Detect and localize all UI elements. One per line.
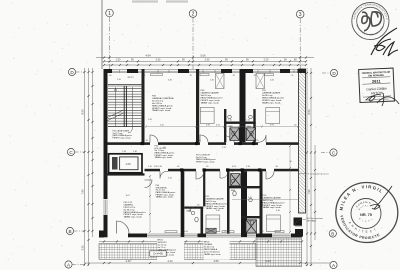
section line top-left [101,0,103,69]
svg-text:BAIE: BAIE [231,189,236,192]
svg-text:.90: .90 [130,58,134,61]
bed P09 [200,108,214,124]
left wall window [104,200,107,216]
signature stamp2 [366,93,399,106]
axis line 3 [299,18,301,69]
room label CASA SCARII [113,130,133,140]
svg-text:.25: .25 [291,75,294,77]
svg-text:TAVAN vops. lavab.: TAVAN vops. lavab. [155,156,173,159]
shower bottom bath right [246,220,257,233]
svg-text:.90: .90 [245,58,249,61]
bottom wall step left [99,231,104,238]
svg-text:1.20: 1.20 [248,197,252,199]
entry door arc [117,221,130,234]
bath core divider 1 [230,186,260,188]
room label P08 [152,96,174,113]
svg-text:8.50: 8.50 [81,109,85,115]
toilets [232,131,235,136]
svg-text:.90: .90 [145,140,148,142]
stamp round verificator [336,183,398,243]
svg-text:.90: .90 [181,58,185,61]
svg-text:8.50: 8.50 [307,109,311,115]
axis marker 1 [106,9,114,17]
signature stamp3 [370,186,392,209]
svg-text:.25: .25 [189,75,192,77]
svg-text:BAIE: BAIE [248,220,253,223]
svg-text:1 covorasele de acces: 1 covorasele de acces [308,172,329,175]
svg-text:C: C [332,150,336,155]
terrace hatch strip [99,244,256,260]
top bath ceiling wall [224,122,256,124]
svg-text:2: 2 [192,11,195,17]
stamp logo YD [362,12,370,31]
bath core left wall [227,171,230,233]
stair cut line [108,110,124,121]
faint cut text top [132,0,188,2]
shower top bath left [230,128,239,141]
svg-text:1.20: 1.20 [228,119,232,121]
svg-text:2.15: 2.15 [168,178,173,180]
P11 left wall [203,171,205,206]
door arc bath top [226,136,234,143]
corridor lower wall [145,169,161,172]
svg-text:2611: 2611 [372,78,382,83]
left exterior wall [104,69,108,199]
axis marker B right [329,230,336,237]
svg-text:TAVAN vops. lavab.: TAVAN vops. lavab. [263,206,282,209]
svg-text:2.30: 2.30 [210,80,215,82]
door arc P09 [200,135,208,142]
svg-text:3: 3 [299,12,302,18]
left dim chain 3 [92,68,94,237]
svg-text:.30: .30 [294,124,297,126]
svg-text:C+V=30: C+V=30 [153,252,163,256]
door arc bath bottom [220,171,228,178]
plumbing wall bottom center [241,171,247,237]
room label TERASA [204,240,230,259]
svg-text:1.50: 1.50 [117,79,121,81]
shower top bath right [246,128,255,141]
svg-text:5.06: 5.06 [200,54,206,58]
top exterior wall piers [104,69,113,73]
svg-text:1.05: 1.05 [184,231,188,233]
svg-text:1.05: 1.05 [125,162,131,166]
svg-text:1.20: 1.20 [246,119,250,121]
svg-text:1.40: 1.40 [133,151,137,153]
stamp rect OAR [359,68,395,102]
svg-text:BAIE: BAIE [229,125,234,128]
svg-text:1.10: 1.10 [246,166,250,168]
staircase stringer [124,86,126,127]
svg-text:A: A [67,262,71,267]
svg-text:3.95: 3.95 [216,125,221,127]
left dim chain 2 [88,68,90,266]
svg-text:2.30: 2.30 [205,58,210,61]
svg-text:.90: .90 [224,231,227,233]
interior vertical dim chain right rooms [289,146,291,232]
svg-text:BAIE: BAIE [247,125,252,128]
svg-text:PERETI vops. lavab.: PERETI vops. lavab. [113,137,132,139]
bed P11 [206,215,220,232]
left dim chain 1 [84,68,86,266]
room label P16 [263,195,285,209]
svg-text:BAIE: BAIE [187,210,192,213]
bottom dim row 1 [99,241,302,243]
svg-text:.90: .90 [256,140,259,142]
top dim row 1 [96,57,314,59]
axis marker 3 [296,10,304,18]
bed P10 [266,108,280,124]
svg-text:SETTASA: SETTASA [307,219,317,222]
svg-text:TAVAN vops. lavab.: TAVAN vops. lavab. [152,109,171,112]
svg-text:D: D [332,71,336,76]
interior dim row bottom [232,199,298,201]
svg-text:WF 15: WF 15 [128,77,135,79]
door arc terrace [295,219,302,226]
svg-text:PERETI vops. lavab.: PERETI vops. lavab. [196,162,215,164]
svg-text:1.98: 1.98 [122,151,126,153]
svg-text:3.95: 3.95 [206,124,210,126]
svg-text:.90: .90 [206,166,209,168]
svg-text:B: B [331,231,334,236]
svg-text:.45: .45 [177,166,180,168]
door arc protocol [145,180,153,188]
top dim row 3 [104,64,306,66]
bath core right wall [260,171,263,233]
door arc P10 [258,135,266,142]
svg-text:1.20: 1.20 [222,147,227,149]
hall lower wall left [104,173,145,175]
protocol-ghicineta wall [181,171,185,237]
room label P09 [201,90,223,104]
svg-text:4.94: 4.94 [145,54,151,58]
interior vertical dim chain in protocol room [149,176,151,232]
axis marker A right [330,261,337,268]
svg-text:.80: .80 [293,58,297,61]
svg-text:TAVAN vops. lavab.: TAVAN vops. lavab. [204,253,221,256]
svg-text:.25: .25 [232,75,235,77]
svg-text:.90: .90 [198,140,201,142]
svg-text:1.20: 1.20 [148,166,152,168]
top bath left wall [224,109,226,142]
axis marker D right [330,69,337,76]
bottom dim row 2 [85,262,330,264]
room label P10 [262,90,284,104]
bed P16 [267,215,281,232]
right wall column B [295,229,303,237]
axis marker C left [67,148,74,155]
corridor upper wall [108,142,151,145]
top bath right wall [253,109,255,142]
leader annotation right 2 [303,219,307,221]
bottom exterior wall piers [99,234,108,238]
door arc P08 [150,135,158,142]
svg-text:4.55: 4.55 [213,259,219,263]
right dim chain 2 [310,68,312,266]
axis line 1 [109,17,111,69]
elevator shaft inner [120,157,138,170]
radiators [151,74,163,76]
staircase treads [108,86,144,127]
svg-text:1: 1 [108,11,111,17]
svg-text:1.20: 1.20 [230,171,234,173]
svg-text:B. L. C. P. L.: B. L. C. P. L. [358,218,374,223]
svg-text:4.23: 4.23 [232,166,237,168]
svg-text:BUCURESTI ROMANIA SRL: BUCURESTI ROMANIA SRL [355,25,385,37]
svg-text:.40: .40 [109,75,112,77]
svg-text:TAVAN vops. lavab.: TAVAN vops. lavab. [156,196,174,199]
ghicineta bath walls [184,207,203,209]
axis marker D left [68,68,75,75]
svg-text:3.95: 3.95 [270,125,275,127]
axis line 2 [192,18,194,69]
door arc ghicineta bath [190,207,196,213]
svg-text:1.98 1.40: 1.98 1.40 [154,166,163,168]
shower bottom bath left [231,174,241,186]
svg-text:1.45: 1.45 [148,119,153,121]
svg-text:4.07: 4.07 [126,195,131,197]
svg-text:3.30: 3.30 [216,210,221,212]
bath core divider 2 [241,216,260,218]
stair-P08 wall [142,69,145,145]
svg-text:TAVAN vops. lavab.: TAVAN vops. lavab. [201,101,220,104]
room label PROTOCOL [124,202,146,219]
door arc hall [160,171,168,178]
terrace hatch right [256,238,302,267]
svg-text:7.90: 7.90 [307,189,311,195]
axis marker C right [330,149,337,156]
svg-text:D: D [70,70,74,75]
svg-text:.90: .90 [275,166,278,168]
furniture near bottom wall [206,228,217,233]
svg-text:2.20: 2.20 [270,80,275,82]
svg-text:2.20: 2.20 [264,58,269,61]
svg-text:.90: .90 [224,58,228,61]
C+V box [150,251,166,256]
svg-text:.90: .90 [197,205,200,207]
sinks [228,115,232,119]
svg-text:.25: .25 [143,75,146,77]
svg-text:B: B [68,229,71,234]
svg-text:.25: .25 [253,75,256,77]
svg-text:.90: .90 [283,58,287,61]
P08-P09 wall [196,69,199,142]
svg-text:1.50: 1.50 [116,58,121,61]
bottom wall window lines [147,234,198,237]
svg-text:TAVAN vops. lavab.: TAVAN vops. lavab. [124,216,143,219]
svg-text:.90: .90 [163,147,167,149]
leader annotation right 1 [299,173,308,175]
top dim row 2 [104,60,306,62]
elevator shaft outer [109,154,142,173]
right dim chain 3 [314,145,316,240]
wall junction nodes corridor [141,142,144,145]
svg-text:4.40: 4.40 [125,259,131,263]
window center ticks top [120,70,295,73]
room label GHICINETA [156,185,177,199]
svg-text:.30: .30 [289,161,293,163]
svg-text:3.30: 3.30 [276,210,281,212]
signature top-right [371,28,398,56]
axis marker B left [66,227,73,234]
svg-text:105 Sua mocheta: 105 Sua mocheta [307,217,324,220]
right dim chain 1 [306,68,308,266]
svg-text:TAVAN vops. lavab.: TAVAN vops. lavab. [262,101,281,104]
closet P09 [216,74,225,89]
svg-text:A: A [332,263,336,268]
svg-text:3.30: 3.30 [168,80,173,82]
svg-text:C: C [69,150,73,155]
room label HOL [155,146,176,160]
room label MF serviciu [157,239,184,261]
svg-text:NR. 75: NR. 75 [360,213,372,217]
door arc P16 [266,171,274,179]
axis marker 2 [189,10,197,18]
svg-text:7.90: 7.90 [81,189,85,195]
top exterior wall window lines [104,70,306,73]
stamp round top-right [0,0,389,40]
closet P10 [256,74,265,89]
svg-text:.90: .90 [261,231,264,233]
staircase arrows [115,87,133,133]
interior dim row mid [146,126,298,128]
axis marker A left [65,261,72,268]
room label P11 [206,196,228,210]
svg-text:2.50: 2.50 [160,124,164,126]
room label CORIDOR [196,155,217,164]
door arc P11 [196,171,204,179]
svg-text:3.35: 3.35 [81,245,85,251]
svg-text:3.30: 3.30 [156,58,161,61]
right exterior wall hatched [299,69,306,213]
plumbing wall top center [240,69,246,142]
right wall column A [294,218,303,226]
